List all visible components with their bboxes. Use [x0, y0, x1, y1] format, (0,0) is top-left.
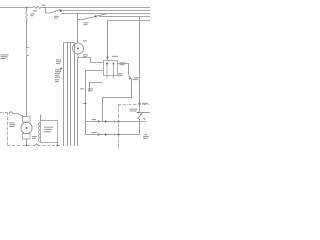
drum wire 2 — [86, 134, 140, 136]
label bottom right — [143, 136, 149, 137]
dash-dot enclosure left — [0, 105, 149, 151]
label gen bottom — [83, 54, 88, 55]
label right of tick — [134, 77, 139, 78]
motor brush box top — [23, 117, 31, 123]
node on x139.5 — [139, 103, 141, 105]
label mid-2 — [55, 69, 61, 70]
label FU1 — [33, 10, 37, 11]
label SW2 — [84, 22, 89, 23]
wire stub to resistor box — [107, 58, 109, 61]
breaker OL on x26 — [26, 48, 29, 56]
label shunt field — [44, 127, 53, 128]
hump on enclosure line — [35, 144, 39, 146]
switch on x139.5 — [138, 113, 143, 119]
wire top supply line L1 — [0, 7, 150, 9]
dash-dot drum shaft vertical — [118, 105, 120, 151]
wire corner feed to relay — [108, 21, 151, 58]
bar over resistor taps — [64, 42, 75, 44]
switch SW1 drop — [46, 8, 51, 14]
motor M circle — [21, 122, 32, 133]
label tapA — [80, 88, 84, 89]
switch SW1 contact blob — [60, 10, 62, 12]
field stub — [40, 115, 42, 121]
nodes on drum shaft line — [118, 121, 120, 123]
fuse FU2 — [26, 12, 27, 20]
wire bus L3 — [62, 13, 151, 15]
label three phase — [10, 122, 15, 123]
wire vertical right x139.5 — [139, 17, 141, 135]
drum wire 1 — [86, 121, 147, 123]
resistor tap arrow 1 — [106, 64, 108, 79]
label wire2 — [92, 132, 97, 133]
label SW1 — [54, 16, 59, 17]
wire from box right — [118, 64, 129, 75]
wire tap vertical 2 — [67, 43, 69, 147]
node tap B — [89, 90, 91, 92]
label mid-1 — [56, 59, 61, 60]
field bottom lead — [57, 143, 59, 146]
wire generator bottom path — [78, 54, 104, 63]
wire tap vertical 5 — [77, 58, 79, 147]
wire tap A — [86, 71, 104, 135]
wire tap B — [90, 83, 103, 91]
wire generator drop x77.5 — [77, 14, 79, 43]
label wire1 — [92, 119, 97, 120]
motor bottom lead — [26, 139, 28, 146]
generator G circle — [73, 43, 84, 54]
drum contact marks wire2 — [98, 133, 101, 136]
label left breaker — [1, 54, 9, 55]
label rev field — [130, 109, 138, 110]
text blobs — [1, 5, 150, 139]
node gen tap — [77, 13, 79, 15]
wire vertical branch x26 — [26, 8, 28, 117]
resistor tap arrow 2 — [113, 64, 115, 79]
label res right — [120, 62, 126, 63]
contact arrow diag — [129, 75, 131, 78]
wire into motor from left — [9, 112, 24, 117]
end blob wire2 — [145, 134, 148, 136]
node relay feed — [107, 57, 109, 59]
field coil loops — [39, 123, 41, 142]
switch SW2 blade — [82, 14, 108, 20]
motor brush box bottom — [23, 134, 31, 140]
label arm — [32, 136, 37, 137]
wire tap vertical 4 — [74, 43, 76, 147]
resistor box RES1 — [104, 61, 118, 76]
wire tap vertical 1 — [63, 43, 65, 147]
arrow mark near switch — [144, 118, 146, 120]
label relay node — [112, 56, 118, 57]
arrow mark mid-left — [60, 68, 62, 70]
label FU2 — [31, 13, 35, 14]
wire L down-left to drum — [103, 79, 132, 122]
tick right of arrow — [133, 79, 137, 81]
tick with node x85 — [83, 103, 87, 105]
label below arrow — [118, 73, 123, 74]
switch SW2 arm tee — [78, 19, 82, 21]
switch SW2 contact blob — [95, 15, 97, 17]
drum contact marks wire1 — [98, 120, 101, 123]
wire bus L2 — [62, 10, 151, 12]
label gen top — [83, 40, 87, 41]
switch SW1 blade — [50, 10, 60, 14]
wire off right edge — [138, 112, 151, 114]
node at x26 on L1 — [26, 7, 28, 9]
dash-dot drum shaft horizontal — [119, 104, 150, 106]
wire tap vertical 3 — [70, 43, 72, 147]
fuse FU1 — [33, 7, 40, 9]
wire bus L4 — [99, 16, 150, 18]
shunt field box — [41, 121, 58, 143]
label right node — [142, 103, 148, 104]
